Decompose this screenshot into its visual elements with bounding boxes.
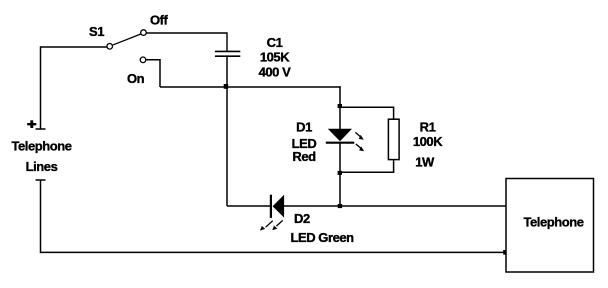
LED D2: [271, 195, 284, 218]
wire bottom horizontal to telephone: [41, 251, 507, 253]
label D1: [292, 119, 317, 164]
svg-text:Off: Off: [150, 12, 169, 27]
svg-text:Telephone: Telephone: [12, 139, 72, 154]
wire main horizontal node row: [160, 86, 341, 88]
svg-text:C1: C1: [267, 35, 283, 50]
svg-text:Red: Red: [292, 149, 316, 164]
LED D2 emission arrow 2: [272, 220, 283, 230]
wire left vertical upper segment: [40, 46, 42, 129]
wire vertical D1 to D2 row: [339, 143, 341, 206]
junction at telephone bottom terminal: [503, 250, 508, 255]
wire vertical from main row to D1: [339, 86, 341, 130]
svg-text:R1: R1: [420, 119, 436, 134]
svg-text:1W: 1W: [415, 155, 435, 170]
LED D1 emission arrow 1: [355, 132, 363, 139]
terminal tick upper (telephone lines +): [36, 128, 46, 130]
svg-text:Telephone: Telephone: [524, 215, 584, 230]
svg-text:D1: D1: [296, 119, 312, 134]
wire capacitor bottom lead: [226, 57, 228, 87]
svg-text:D2: D2: [294, 211, 310, 226]
LED D2 emission arrow 1: [260, 221, 273, 231]
wire D2 row right of LED to telephone: [284, 205, 506, 207]
junction node D1 bottom: [338, 171, 342, 175]
wire branch to R1 top: [340, 107, 394, 120]
label Telephone Lines: [12, 139, 72, 175]
wire top-left horizontal from telephone lines to switch: [41, 46, 108, 48]
capacitor C1: [215, 51, 240, 56]
svg-text:105K: 105K: [260, 50, 290, 65]
wire vertical from capacitor junction down to D2 row: [226, 87, 228, 206]
label C1 value: [259, 35, 292, 80]
svg-text:On: On: [127, 71, 145, 86]
junction at capacitor bottom: [224, 84, 229, 89]
switch S1: [107, 30, 146, 63]
resistor R1: [388, 119, 399, 159]
wire R1 bottom lead: [340, 160, 394, 173]
svg-text:S1: S1: [89, 24, 104, 39]
svg-text:100K: 100K: [413, 134, 443, 149]
LED D1 emission arrow 2: [356, 144, 364, 151]
svg-text:400 V: 400 V: [259, 64, 292, 79]
label R1 value: [413, 119, 443, 169]
LED D1: [326, 129, 355, 143]
wire from Off contact to capacitor top: [146, 33, 227, 51]
junction node on D2 row: [338, 204, 342, 208]
svg-text:LED Green: LED Green: [291, 230, 355, 245]
telephone block: [506, 179, 594, 273]
wire from On contact down to main node row: [146, 60, 160, 87]
label + polarity: [27, 120, 36, 128]
terminal tick lower (telephone lines -): [36, 179, 46, 181]
wire D2 row left of LED: [227, 205, 270, 207]
junction node D1 top: [338, 104, 342, 108]
svg-text:Lines: Lines: [26, 159, 58, 174]
wire left vertical lower segment: [40, 180, 42, 253]
